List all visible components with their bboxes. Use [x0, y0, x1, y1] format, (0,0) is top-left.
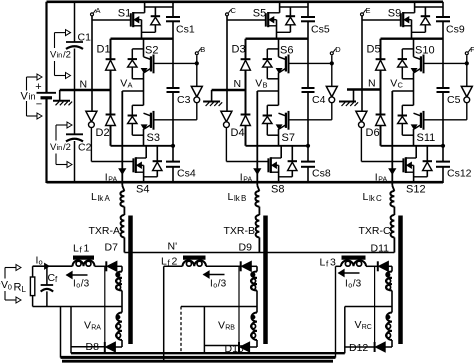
svg-text:o: o [39, 258, 43, 267]
svg-text:D8: D8 [86, 341, 100, 353]
svg-text:S9: S9 [388, 8, 401, 20]
svg-text:L: L [320, 257, 326, 269]
svg-text:V: V [21, 91, 29, 103]
svg-text:S12: S12 [406, 184, 426, 196]
svg-text:/3: /3 [353, 279, 362, 290]
svg-text:B: B [200, 45, 205, 54]
svg-text:TXR-A: TXR-A [89, 225, 121, 237]
svg-text:TXR-B: TXR-B [224, 225, 256, 237]
svg-text:RA: RA [91, 325, 101, 332]
svg-text:D4: D4 [231, 127, 245, 139]
svg-text:A: A [105, 194, 111, 203]
svg-text:D1: D1 [97, 44, 111, 56]
svg-text:D6: D6 [366, 127, 380, 139]
svg-text:PA: PA [243, 177, 252, 184]
svg-text:N: N [368, 78, 376, 90]
svg-text:N: N [80, 79, 88, 91]
svg-text:L: L [363, 191, 369, 203]
svg-text:A: A [128, 81, 133, 90]
svg-text:N: N [234, 78, 242, 90]
svg-text:I: I [375, 172, 378, 184]
svg-text:B: B [263, 81, 268, 90]
svg-text:Cs8: Cs8 [312, 168, 331, 180]
svg-text:C: C [398, 81, 404, 90]
svg-text:+: + [35, 81, 41, 93]
svg-text:S3: S3 [147, 132, 160, 144]
svg-text:F: F [470, 45, 474, 54]
svg-text:V: V [255, 78, 262, 90]
svg-text:V: V [355, 319, 362, 331]
svg-text:in: in [57, 51, 63, 60]
svg-text:D11: D11 [371, 243, 390, 255]
svg-text:Cs12: Cs12 [447, 168, 472, 180]
svg-text:PA: PA [378, 177, 387, 184]
svg-text:lk: lk [234, 194, 241, 203]
svg-text:Cs4: Cs4 [177, 168, 196, 180]
svg-text:D5: D5 [367, 44, 381, 56]
svg-text:Cs9: Cs9 [446, 24, 465, 36]
svg-text:L: L [73, 243, 79, 255]
svg-text:o: o [213, 283, 217, 290]
svg-text:L: L [91, 191, 97, 203]
svg-text:R: R [14, 282, 22, 294]
svg-text:D9: D9 [239, 242, 253, 254]
svg-text:D12: D12 [349, 342, 368, 354]
svg-text:Cs5: Cs5 [311, 24, 330, 36]
svg-text:I: I [240, 172, 243, 184]
svg-text:in: in [29, 92, 36, 102]
svg-text:V: V [84, 320, 91, 332]
svg-text:C3: C3 [177, 94, 191, 106]
svg-text:S1: S1 [118, 8, 131, 20]
svg-text:C2: C2 [78, 142, 92, 154]
svg-text:1: 1 [84, 243, 90, 255]
svg-text:lk: lk [98, 194, 105, 203]
svg-text:S6: S6 [280, 45, 293, 57]
svg-text:/2: /2 [63, 142, 71, 153]
svg-text:D10: D10 [225, 343, 244, 355]
svg-text:V: V [120, 78, 127, 90]
svg-text:RB: RB [225, 325, 235, 332]
svg-text:C1: C1 [78, 32, 92, 44]
svg-text:/3: /3 [218, 279, 227, 290]
svg-text:in: in [57, 143, 63, 152]
svg-text:2: 2 [172, 256, 178, 268]
svg-text:V: V [390, 78, 397, 90]
svg-text:o: o [348, 283, 352, 290]
svg-text:D2: D2 [96, 127, 110, 139]
svg-text:S8: S8 [271, 184, 284, 196]
svg-text:D: D [335, 45, 341, 54]
svg-text:/2: /2 [63, 50, 71, 61]
svg-text:S7: S7 [282, 132, 295, 144]
svg-text:C5: C5 [447, 94, 461, 106]
svg-text:N': N' [168, 241, 178, 253]
svg-text:L: L [22, 285, 27, 294]
svg-text:3: 3 [330, 257, 336, 269]
svg-text:B: B [241, 194, 246, 203]
svg-text:L: L [228, 191, 234, 203]
svg-text:A: A [96, 6, 101, 15]
svg-text:o: o [76, 283, 80, 290]
svg-text:S2: S2 [145, 45, 158, 57]
svg-text:C: C [376, 194, 382, 203]
svg-text:RC: RC [362, 324, 372, 331]
svg-text:S4: S4 [136, 184, 149, 196]
svg-text:L: L [161, 256, 167, 268]
svg-text:−: − [36, 99, 42, 111]
svg-text:C: C [231, 6, 237, 15]
svg-text:0: 0 [8, 283, 12, 292]
svg-text:TXR-C: TXR-C [359, 225, 391, 237]
svg-text:E: E [366, 6, 371, 15]
svg-text:D3: D3 [232, 44, 246, 56]
svg-text:V: V [218, 320, 225, 332]
svg-text:I: I [105, 172, 108, 184]
svg-text:S11: S11 [417, 132, 436, 144]
svg-text:/3: /3 [81, 279, 90, 290]
svg-text:D7: D7 [105, 242, 119, 254]
svg-text:Cs1: Cs1 [176, 24, 195, 36]
svg-text:lk: lk [369, 194, 376, 203]
svg-text:C4: C4 [312, 94, 326, 106]
svg-text:S5: S5 [253, 8, 266, 20]
svg-text:PA: PA [108, 177, 117, 184]
svg-text:S10: S10 [415, 45, 435, 57]
